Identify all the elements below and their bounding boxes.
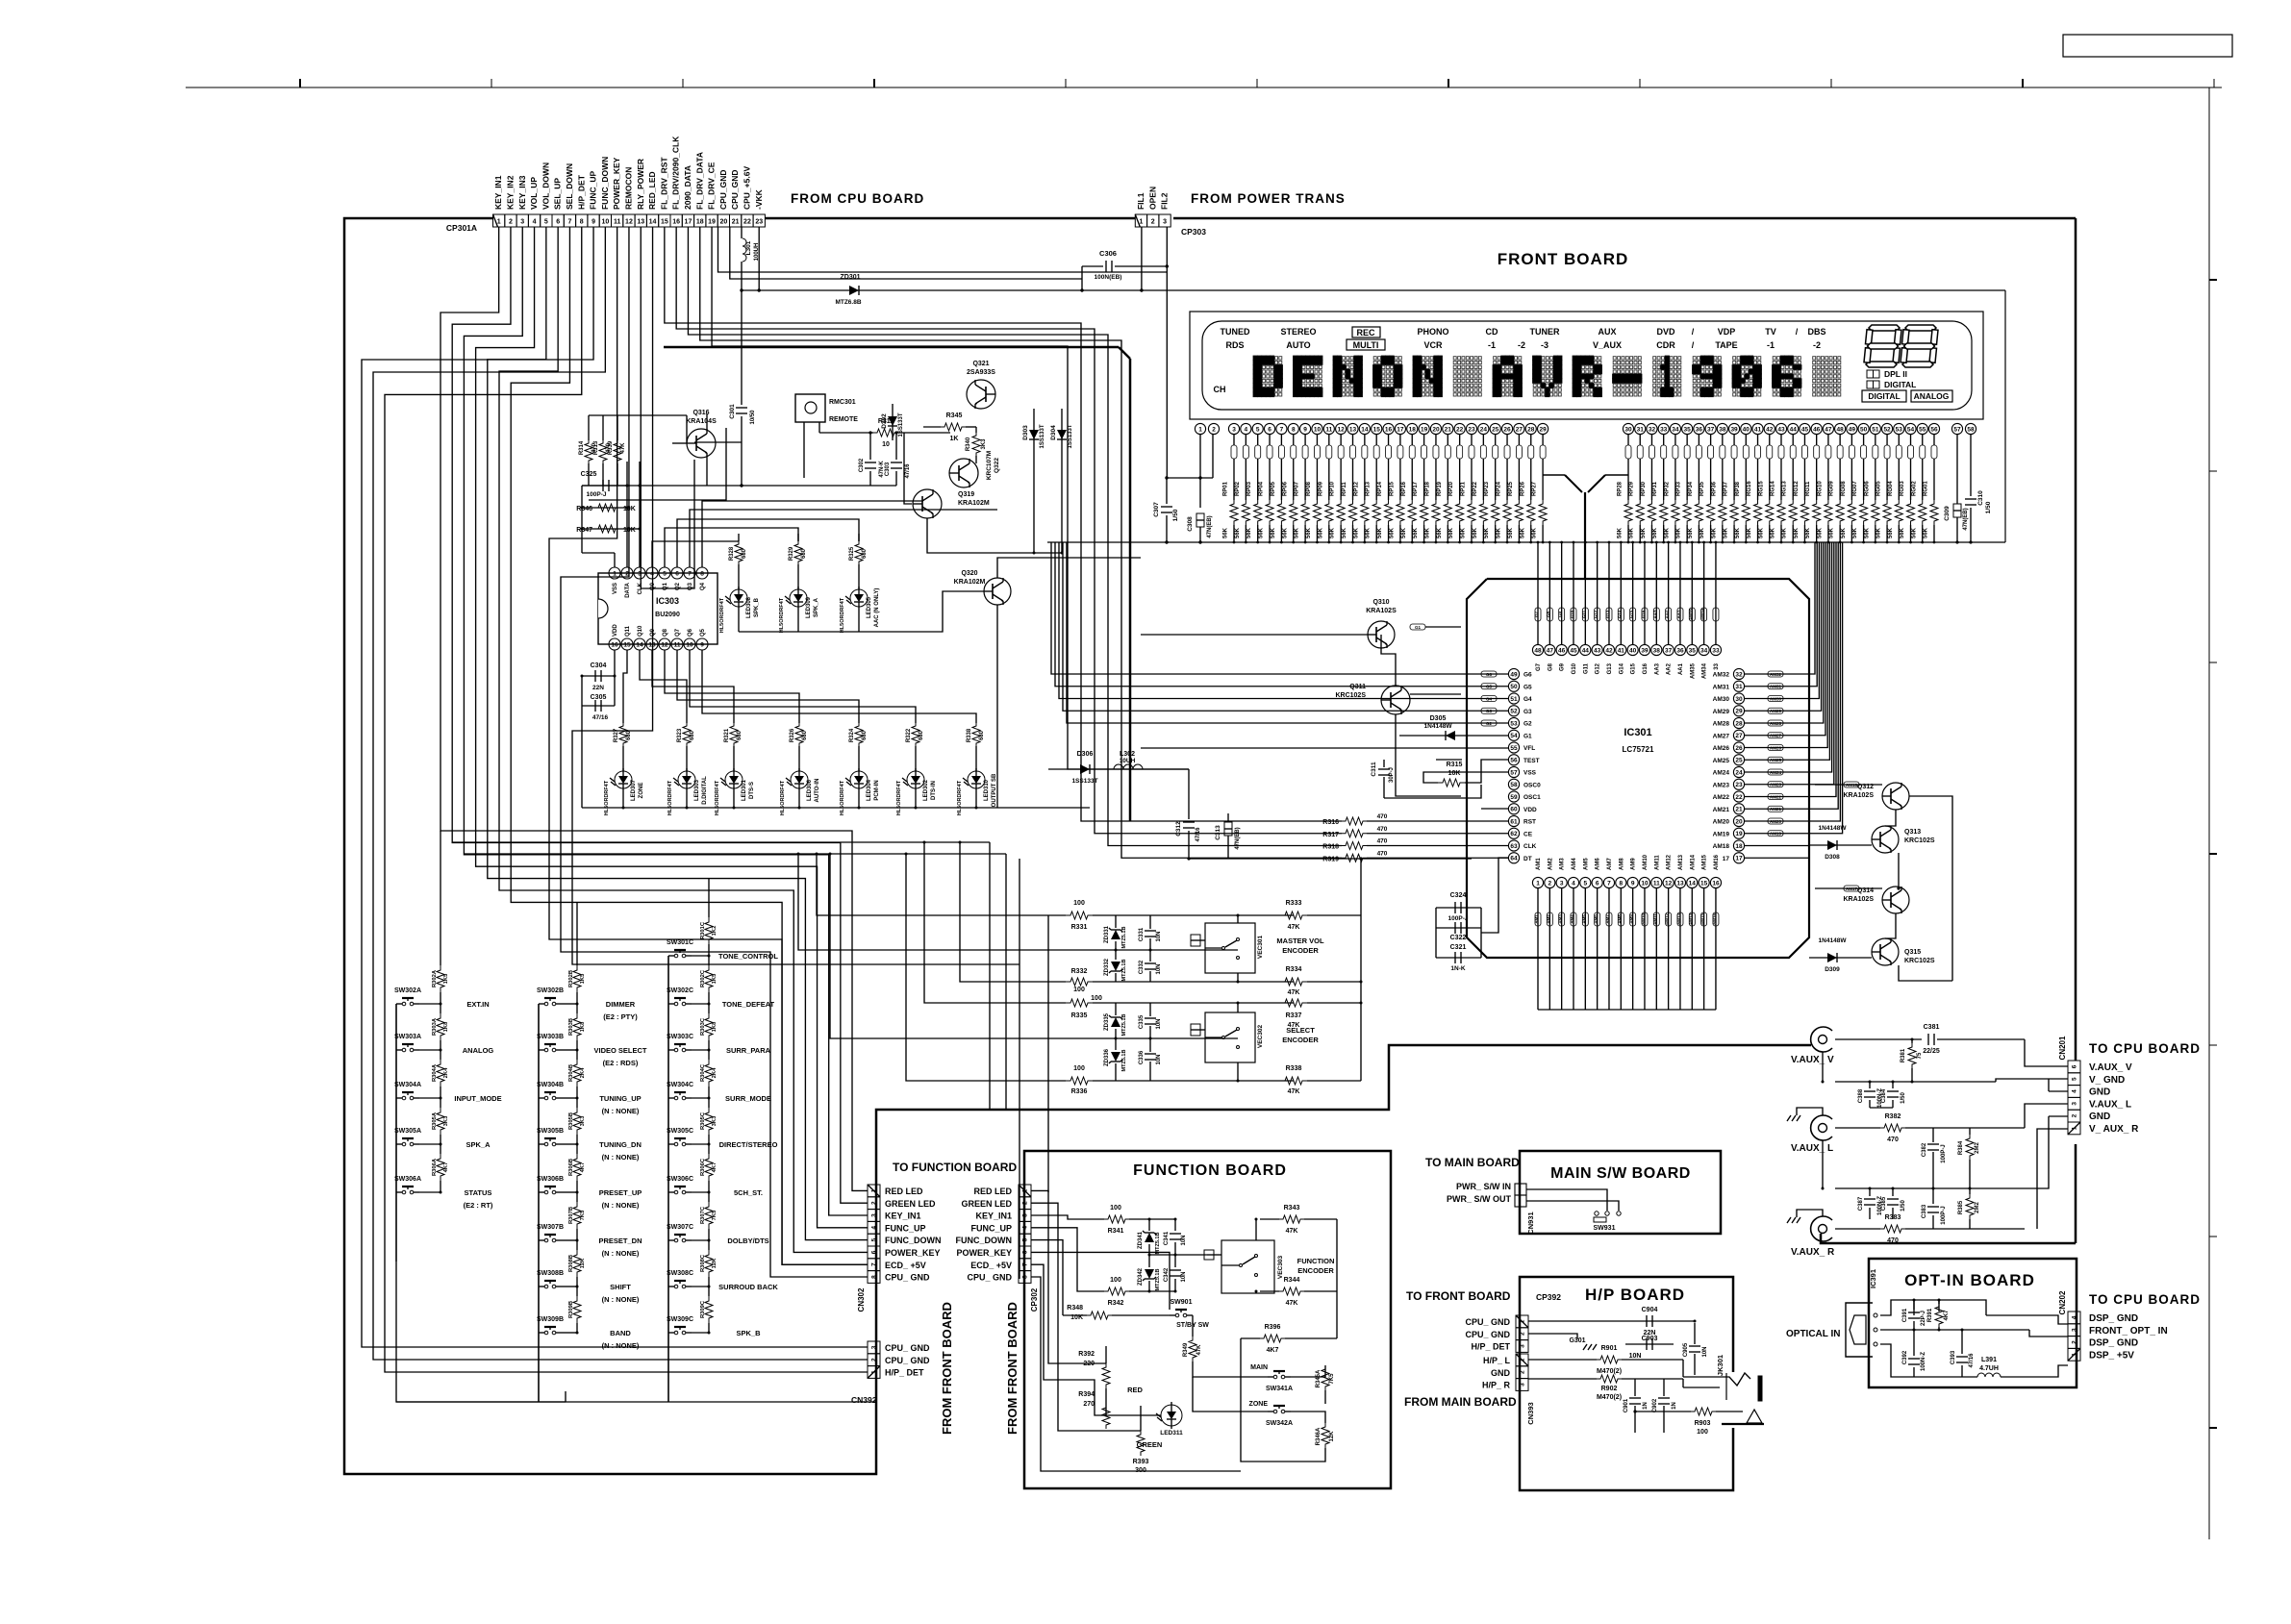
svg-text:Q311: Q311 — [1349, 684, 1366, 690]
svg-text:Q313: Q313 — [1904, 829, 1921, 836]
svg-text:TONE_DEFEAT: TONE_DEFEAT — [722, 1000, 775, 1009]
capacitor C901 1N — [1634, 1379, 1636, 1396]
svg-text:G16: G16 — [1641, 610, 1646, 618]
svg-text:AM26: AM26 — [1770, 745, 1782, 750]
svg-text:R323: R323 — [677, 728, 683, 742]
svg-text:56K: 56K — [1508, 527, 1514, 538]
svg-text:Q319: Q319 — [958, 491, 974, 498]
svg-text:4: 4 — [1572, 880, 1575, 887]
svg-text:R903: R903 — [1695, 1420, 1711, 1427]
switch SW302A — [396, 1003, 402, 1005]
svg-text:56K: 56K — [1497, 527, 1502, 538]
svg-text:KRA102S: KRA102S — [1843, 792, 1874, 799]
svg-text:SW309B: SW309B — [537, 1316, 564, 1323]
capacitor C392 100N-Z — [1913, 1330, 1915, 1356]
svg-text:-VKK: -VKK — [754, 188, 764, 210]
svg-text:CH: CH — [1214, 385, 1226, 394]
svg-text:CPU_ GND: CPU_ GND — [885, 1356, 930, 1365]
svg-text:32: 32 — [1649, 426, 1656, 433]
function board outline — [1024, 1151, 1391, 1488]
svg-text:R306C: R306C — [700, 1158, 706, 1176]
svg-text:TO CPU BOARD: TO CPU BOARD — [2089, 1041, 2201, 1056]
svg-text:100: 100 — [1110, 1205, 1121, 1212]
svg-text:TO FUNCTION BOARD: TO FUNCTION BOARD — [893, 1161, 1017, 1174]
svg-text:TUNED: TUNED — [1221, 327, 1250, 337]
svg-text:ECD_ +5V: ECD_ +5V — [970, 1261, 1012, 1270]
display REC box — [1352, 327, 1380, 337]
display DPL II indicator — [1867, 370, 1874, 378]
svg-text:HL5ORDRF4T: HL5ORDRF4T — [715, 780, 720, 815]
svg-text:C393: C393 — [1951, 1350, 1956, 1364]
svg-text:AM27: AM27 — [1713, 733, 1730, 739]
svg-text:27: 27 — [1735, 733, 1743, 739]
svg-text:38: 38 — [1719, 426, 1726, 433]
transistor Q312 KRA102S — [1882, 783, 1909, 810]
LED LED301 — [725, 771, 743, 788]
svg-text:56: 56 — [1930, 426, 1938, 433]
svg-text:RG04: RG04 — [1888, 481, 1894, 496]
resistor R384 2M2 — [1966, 1135, 1974, 1160]
svg-text:RG14: RG14 — [1770, 481, 1775, 496]
capacitor C331 10N — [1149, 915, 1151, 929]
svg-text:C387: C387 — [1858, 1196, 1864, 1211]
svg-text:AM6: AM6 — [1594, 914, 1599, 924]
resistor R301C 1K2 — [708, 908, 710, 917]
svg-text:AM20: AM20 — [1713, 819, 1730, 826]
LED LED302 — [907, 771, 924, 788]
svg-text:DTS-IN: DTS-IN — [931, 781, 937, 800]
svg-text:31: 31 — [1735, 684, 1743, 690]
svg-text:26: 26 — [1503, 426, 1511, 433]
svg-text:TAPE: TAPE — [1715, 340, 1737, 350]
svg-text:56K: 56K — [1629, 527, 1635, 538]
capacitor C302 47N-K — [869, 433, 871, 460]
svg-text:56K: 56K — [1318, 527, 1323, 538]
display DIGITAL box — [1862, 390, 1906, 402]
svg-text:R382: R382 — [1885, 1113, 1901, 1120]
svg-text:AM14: AM14 — [1690, 854, 1696, 870]
svg-text:12K: 12K — [1329, 1431, 1335, 1442]
svg-text:C305: C305 — [591, 694, 607, 701]
svg-text:R325: R325 — [849, 546, 855, 561]
svg-text:47K: 47K — [1286, 1300, 1298, 1307]
svg-text:RP01: RP01 — [1223, 481, 1229, 496]
svg-text:22P-J: 22P-J — [1921, 1311, 1926, 1326]
svg-text:47/16: 47/16 — [592, 714, 609, 721]
svg-text:100: 100 — [1073, 1065, 1085, 1072]
svg-text:AM18: AM18 — [1713, 843, 1730, 850]
svg-text:CPU_ GND: CPU_ GND — [885, 1273, 930, 1283]
title block box — [2063, 35, 2232, 57]
svg-text:(E2 : RT): (E2 : RT) — [464, 1201, 493, 1210]
wire remocon line 12 — [561, 227, 868, 1277]
svg-text:SELECT: SELECT — [1286, 1026, 1315, 1035]
svg-text:3: 3 — [1232, 426, 1236, 433]
svg-text:33: 33 — [1714, 662, 1720, 669]
svg-text:AUX: AUX — [1598, 327, 1616, 337]
transistor Q315 KRC102S — [1872, 938, 1899, 965]
encoder VEC301 MASTER VOL — [1205, 923, 1255, 973]
svg-text:RG03: RG03 — [1900, 481, 1905, 496]
svg-text:KRA102S: KRA102S — [1843, 896, 1874, 903]
svg-text:(N : NONE): (N : NONE) — [602, 1201, 640, 1210]
svg-text:C321: C321 — [1450, 944, 1467, 951]
svg-text:OUTPUT SB: OUTPUT SB — [992, 773, 997, 807]
svg-text:G8: G8 — [1546, 612, 1550, 618]
svg-text:75: 75 — [1917, 1052, 1923, 1059]
svg-text:49: 49 — [1849, 426, 1856, 433]
connector CN931 — [1515, 1184, 1526, 1195]
inductor L302 10UH — [1114, 764, 1143, 769]
resistor R348 10K — [1063, 1314, 1087, 1316]
svg-text:10/50: 10/50 — [750, 410, 756, 425]
svg-text:VDD: VDD — [1523, 807, 1537, 813]
svg-text:C310: C310 — [1977, 490, 1984, 506]
resistor R329 680 — [797, 534, 799, 541]
svg-text:220: 220 — [1083, 1361, 1095, 1367]
svg-text:R902: R902 — [1601, 1386, 1618, 1392]
svg-text:RP26: RP26 — [1520, 481, 1525, 496]
inductor L301 100UH — [743, 238, 746, 262]
svg-text:RP02: RP02 — [1235, 481, 1241, 496]
svg-text:AM24: AM24 — [1713, 770, 1730, 777]
switch SW306B — [539, 1191, 544, 1193]
svg-text:4K7: 4K7 — [580, 1162, 586, 1173]
transistor Q322 KRC107M — [949, 459, 978, 487]
svg-text:R304B: R304B — [568, 1064, 574, 1082]
svg-text:RG05: RG05 — [1876, 481, 1882, 496]
svg-text:56K: 56K — [1900, 527, 1905, 538]
capacitor C384 1/50 — [1892, 1082, 1894, 1088]
svg-text:AUTO-IN: AUTO-IN — [815, 779, 820, 803]
svg-text:6: 6 — [2072, 1064, 2078, 1068]
capacitor C393 47/16 — [1961, 1330, 1963, 1354]
svg-text:54: 54 — [1907, 426, 1915, 433]
connector CN302 — [868, 1185, 880, 1197]
svg-text:H/P BOARD: H/P BOARD — [1585, 1286, 1685, 1304]
svg-text:R303C: R303C — [700, 1017, 706, 1036]
svg-text:FROM POWER TRANS: FROM POWER TRANS — [1191, 191, 1346, 206]
svg-text:RG02: RG02 — [1911, 481, 1917, 496]
svg-text:10N: 10N — [1156, 963, 1162, 974]
svg-text:2M2: 2M2 — [1975, 1142, 1980, 1154]
wire TEST VSS — [1436, 759, 1462, 761]
svg-text:56K: 56K — [1437, 527, 1443, 538]
svg-text:56K: 56K — [1747, 527, 1752, 538]
svg-text:IC301: IC301 — [1624, 727, 1651, 738]
svg-text:R317: R317 — [1322, 832, 1339, 838]
svg-text:OSC0: OSC0 — [1523, 782, 1541, 788]
svg-text:AM32: AM32 — [1770, 672, 1782, 677]
svg-text:C303: C303 — [885, 462, 891, 476]
svg-text:FUNC_DOWN: FUNC_DOWN — [885, 1236, 942, 1245]
svg-text:RP28: RP28 — [1618, 481, 1624, 496]
IC301 left pins 49-64 — [1508, 668, 1519, 679]
svg-text:R303B: R303B — [568, 1018, 574, 1036]
svg-text:56K: 56K — [1401, 527, 1407, 538]
svg-text:22/25: 22/25 — [1923, 1048, 1940, 1055]
transistor Q320 KRA102M — [984, 578, 1011, 605]
svg-text:AM31: AM31 — [1770, 685, 1782, 689]
svg-text:44: 44 — [1790, 426, 1798, 433]
connector CN392 — [868, 1341, 880, 1354]
diode D303 1SS133T — [1033, 409, 1035, 553]
svg-text:TUNER: TUNER — [1530, 327, 1560, 337]
capacitor C324 100P-J — [1436, 907, 1481, 909]
resistor R346A 12K — [1322, 1423, 1329, 1448]
svg-text:(N : NONE): (N : NONE) — [602, 1341, 640, 1350]
svg-text:25: 25 — [1492, 426, 1499, 433]
capacitor C385 1/50 — [1892, 1188, 1894, 1196]
svg-text:48: 48 — [1837, 426, 1845, 433]
svg-text:DTS-S: DTS-S — [749, 782, 755, 799]
svg-text:G15: G15 — [1631, 662, 1637, 674]
svg-text:30: 30 — [1735, 696, 1743, 703]
svg-text:10K: 10K — [1448, 770, 1461, 777]
svg-text:56K: 56K — [1235, 527, 1241, 538]
svg-text:R301C: R301C — [700, 921, 706, 939]
svg-text:AM10: AM10 — [1643, 854, 1649, 870]
svg-text:7: 7 — [1280, 426, 1284, 433]
svg-text:FROM FRONT BOARD: FROM FRONT BOARD — [1005, 1302, 1020, 1435]
svg-text:G16: G16 — [1643, 662, 1649, 674]
svg-text:SPK_A: SPK_A — [466, 1140, 491, 1149]
resistor R337 47K — [1280, 999, 1307, 1007]
svg-text:MTZ5.1B: MTZ5.1B — [1121, 1014, 1127, 1037]
svg-text:3K3: 3K3 — [712, 1115, 718, 1126]
svg-text:G3: G3 — [1486, 709, 1493, 713]
svg-text:8: 8 — [700, 570, 704, 577]
svg-text:C306: C306 — [1099, 249, 1117, 258]
svg-text:SW306C: SW306C — [667, 1176, 693, 1183]
svg-text:10N: 10N — [1156, 1018, 1162, 1029]
svg-text:RP18: RP18 — [1424, 481, 1430, 496]
svg-text:300: 300 — [1135, 1467, 1146, 1474]
svg-text:1N: 1N — [1672, 1402, 1677, 1410]
svg-text:BU2090: BU2090 — [655, 612, 680, 618]
svg-text:270: 270 — [1083, 1401, 1095, 1408]
svg-text:56K: 56K — [1282, 527, 1288, 538]
svg-text:100P-J: 100P-J — [1941, 1206, 1947, 1224]
svg-text:10N: 10N — [1156, 931, 1162, 941]
svg-text:56K: 56K — [1223, 527, 1229, 538]
resistor R305C 3K3 — [708, 1098, 710, 1108]
svg-text:AA3: AA3 — [1654, 662, 1660, 675]
wire VFL — [1141, 747, 1508, 749]
svg-text:R328: R328 — [729, 546, 735, 561]
svg-text:LED311: LED311 — [1160, 1430, 1183, 1437]
svg-text:AM1: AM1 — [1536, 858, 1542, 870]
svg-text:37: 37 — [1707, 426, 1715, 433]
resistor R303A 1K8 — [440, 1004, 441, 1013]
svg-text:34: 34 — [1672, 426, 1679, 433]
svg-text:MTZ5.1B: MTZ5.1B — [1155, 1233, 1161, 1255]
svg-text:10: 10 — [882, 441, 890, 448]
svg-text:42: 42 — [1766, 426, 1774, 433]
svg-text:CN202: CN202 — [2058, 1290, 2067, 1314]
wire FL_DRV lines 15-19 — [665, 227, 1289, 821]
svg-text:48: 48 — [1534, 647, 1542, 654]
svg-text:KEY_IN1: KEY_IN1 — [975, 1212, 1012, 1221]
svg-text:VSS: VSS — [613, 583, 618, 594]
svg-text:R302A: R302A — [432, 969, 438, 987]
resistor array RP28-RG01 56K — [1627, 435, 1629, 445]
switch SW308C — [668, 1286, 674, 1287]
IC IC303 BU2090 — [598, 573, 718, 644]
svg-text:SPK_B: SPK_B — [736, 1329, 761, 1337]
svg-text:R345: R345 — [946, 412, 963, 419]
svg-text:56K: 56K — [1618, 527, 1624, 538]
svg-text:L391: L391 — [1981, 1357, 1997, 1363]
svg-text:R901: R901 — [1601, 1345, 1618, 1352]
svg-text:3K3: 3K3 — [443, 1115, 449, 1126]
svg-text:R304C: R304C — [700, 1063, 706, 1082]
svg-text:56: 56 — [1510, 758, 1518, 764]
svg-text:SW302C: SW302C — [667, 987, 693, 994]
svg-text:AM9: AM9 — [1629, 914, 1634, 924]
svg-text:V.AUX_ L: V.AUX_ L — [2089, 1099, 2131, 1110]
svg-text:56K: 56K — [1841, 527, 1847, 538]
capacitor C322 100P-J — [1436, 927, 1481, 929]
switch SW307C — [668, 1239, 674, 1241]
svg-text:DIMMER: DIMMER — [606, 1000, 636, 1009]
svg-text:3K3: 3K3 — [580, 1115, 586, 1126]
resistor R336 100 — [906, 854, 1066, 1081]
svg-text:AM9: AM9 — [1631, 858, 1637, 870]
svg-text:SW303A: SW303A — [394, 1034, 421, 1040]
svg-text:Q7: Q7 — [675, 628, 681, 637]
svg-text:1N4148W: 1N4148W — [1819, 937, 1848, 944]
svg-text:2: 2 — [1548, 880, 1552, 887]
svg-text:AM7: AM7 — [1605, 914, 1610, 924]
capacitor C341 10N — [1174, 1219, 1176, 1231]
svg-text:CN393: CN393 — [1526, 1402, 1535, 1424]
resistor R385 2M2 — [1966, 1194, 1974, 1219]
svg-text:AM21: AM21 — [1713, 807, 1730, 813]
svg-text:RG01: RG01 — [1923, 481, 1928, 496]
svg-text:56K: 56K — [1306, 527, 1312, 538]
svg-text:45: 45 — [1801, 426, 1809, 433]
svg-text:RG16: RG16 — [1747, 481, 1752, 496]
svg-text:22: 22 — [1735, 794, 1743, 801]
svg-text:RP08: RP08 — [1306, 481, 1312, 496]
svg-text:5CH_ST.: 5CH_ST. — [734, 1188, 763, 1197]
svg-text:2: 2 — [509, 219, 513, 226]
resistor R327 680 — [619, 723, 627, 746]
svg-text:KRA102M: KRA102M — [954, 579, 986, 586]
svg-text:7: 7 — [567, 219, 571, 226]
svg-text:AM29: AM29 — [1770, 709, 1782, 713]
svg-text:D309: D309 — [1825, 966, 1840, 973]
svg-text:1/50: 1/50 — [1901, 1092, 1906, 1104]
capacitor C382 100P-J — [1932, 1128, 1934, 1142]
svg-text:R335: R335 — [1071, 1012, 1088, 1019]
svg-text:56K: 56K — [1641, 527, 1647, 538]
svg-text:8: 8 — [1292, 426, 1296, 433]
wire switch column B left — [538, 1004, 540, 1402]
resistor R335 100 — [924, 842, 1066, 1003]
svg-text:11: 11 — [614, 219, 621, 226]
svg-text:SW302B: SW302B — [537, 987, 564, 994]
svg-text:Q321: Q321 — [972, 361, 989, 367]
svg-text:11: 11 — [1653, 880, 1660, 887]
svg-text:STATUS: STATUS — [465, 1188, 492, 1197]
svg-text:17: 17 — [1735, 856, 1743, 862]
capacitor C904 22N — [1625, 1320, 1674, 1322]
switch SW302B — [539, 1003, 544, 1005]
svg-text:SW303B: SW303B — [537, 1034, 564, 1040]
svg-text:56K: 56K — [1888, 527, 1894, 538]
svg-text:10: 10 — [1641, 880, 1649, 887]
svg-text:R308B: R308B — [568, 1255, 574, 1272]
svg-text:1SS133T: 1SS133T — [1068, 424, 1073, 448]
zener ZD336 MTZ5.1B — [1115, 1038, 1117, 1050]
svg-text:C381: C381 — [1924, 1024, 1940, 1031]
svg-text:G6: G6 — [1486, 672, 1493, 677]
svg-text:63: 63 — [1510, 843, 1518, 850]
svg-text:Q6: Q6 — [688, 628, 693, 637]
svg-text:RP31: RP31 — [1652, 481, 1658, 496]
svg-text:FUNCTION BOARD: FUNCTION BOARD — [1133, 1162, 1287, 1179]
svg-text:12: 12 — [625, 219, 633, 226]
resistor R334 47K — [1280, 978, 1307, 986]
svg-text:VEC303: VEC303 — [1277, 1256, 1284, 1280]
svg-text:LED305: LED305 — [867, 596, 872, 618]
resistor R396 4K7 — [1241, 1337, 1260, 1339]
svg-text:ZD342: ZD342 — [1138, 1267, 1144, 1286]
wire main s/w board — [1526, 1189, 1607, 1211]
svg-text:DIRECT/STEREO: DIRECT/STEREO — [719, 1140, 778, 1149]
display DIGITAL indicator — [1867, 381, 1874, 388]
resistor R304C 2K4 — [708, 1050, 710, 1060]
svg-text:D304: D304 — [1050, 425, 1057, 440]
svg-text:13: 13 — [1349, 426, 1357, 433]
resistor R902 M470(2) — [1528, 1378, 1597, 1380]
svg-text:1K8: 1K8 — [712, 1021, 718, 1032]
svg-text:18: 18 — [1735, 843, 1743, 850]
svg-text:AM30: AM30 — [1713, 696, 1730, 703]
svg-text:FL_DRV_RST: FL_DRV_RST — [659, 157, 668, 210]
svg-text:Q315: Q315 — [1904, 949, 1921, 956]
svg-text:ENCODER: ENCODER — [1282, 1036, 1319, 1044]
svg-text:9: 9 — [1303, 426, 1307, 433]
svg-text:5: 5 — [871, 1237, 878, 1241]
svg-text:G2: G2 — [1523, 721, 1532, 728]
svg-text:470: 470 — [1377, 850, 1388, 857]
svg-text:21: 21 — [1445, 426, 1452, 433]
svg-text:LED310: LED310 — [984, 779, 990, 801]
svg-text:30: 30 — [1624, 426, 1632, 433]
svg-text:LED306: LED306 — [807, 779, 813, 801]
svg-text:R307B: R307B — [568, 1207, 574, 1224]
svg-text:18: 18 — [1409, 426, 1417, 433]
wire IC303 DATA CLK pullups — [626, 462, 628, 567]
svg-text:R343: R343 — [1284, 1205, 1300, 1212]
svg-text:CN931: CN931 — [1526, 1212, 1535, 1234]
svg-text:KEY_IN3: KEY_IN3 — [517, 175, 527, 210]
LED LED311 — [1161, 1405, 1182, 1426]
svg-text:8: 8 — [1619, 880, 1623, 887]
svg-text:DIGITAL: DIGITAL — [1868, 391, 1900, 401]
display pin row — [1195, 423, 1205, 434]
svg-text:R326: R326 — [790, 728, 795, 742]
switch SW306A — [396, 1191, 402, 1193]
connector CP392 — [1516, 1315, 1528, 1328]
resistor R322 680 — [912, 723, 919, 746]
svg-text:AM30: AM30 — [1770, 696, 1782, 701]
wire CP302 into function board — [1031, 1190, 1106, 1363]
bus funnel to IC301 — [1543, 474, 1565, 476]
